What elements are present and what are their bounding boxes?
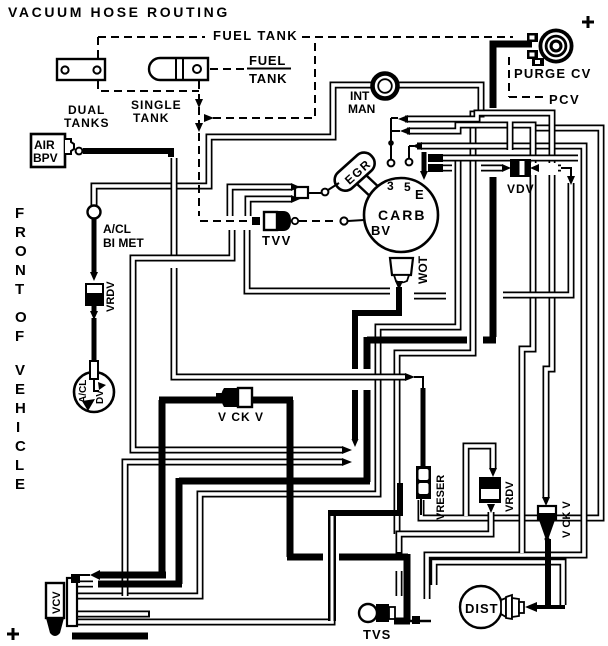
dual tanks sender bbox=[57, 59, 105, 80]
wire carb port3b hose down slot to lower junction bbox=[407, 125, 533, 553]
wire inner bottom-right run to distributor riser bbox=[434, 562, 563, 605]
label A/CL DV rotated bbox=[78, 380, 106, 404]
label FUEL over TANK bbox=[247, 53, 291, 86]
svg-text:E: E bbox=[15, 381, 25, 398]
label DUAL TANKS bbox=[64, 103, 109, 130]
wire purge snake to VCV row2 bbox=[98, 581, 182, 588]
svg-text:H: H bbox=[15, 400, 26, 417]
arrow into distributor fitting bbox=[525, 602, 537, 612]
arrow A/CL into VRDV bbox=[90, 272, 98, 281]
label SINGLE TANK bbox=[131, 98, 182, 125]
wire TVV lower stub 2 to WOT area bbox=[247, 228, 390, 291]
wire VCK U right leg bbox=[287, 400, 294, 557]
wire INT MAN left branch to A/CL bimetal bbox=[94, 85, 372, 206]
wire carb E hose D going right bbox=[440, 155, 578, 162]
svg-text:TVV: TVV bbox=[262, 233, 292, 248]
wire VCV hose row 5 to mid riser bbox=[77, 516, 332, 622]
wire purge valve thick line top bbox=[493, 44, 532, 108]
EGR valve bbox=[331, 148, 379, 194]
WOT valve bbox=[390, 258, 413, 290]
svg-text:T: T bbox=[15, 281, 24, 298]
svg-text:E: E bbox=[415, 187, 424, 202]
svg-text:N: N bbox=[15, 262, 26, 279]
svg-text:DIST: DIST bbox=[465, 601, 499, 616]
wire TVV stub hose to EGR fitting bbox=[230, 187, 291, 218]
wire A/CL bimetal down line bbox=[92, 218, 97, 273]
distributor circle bbox=[460, 586, 524, 628]
purge valve bbox=[527, 29, 574, 67]
svg-text:L: L bbox=[15, 457, 24, 474]
wire VCV row2 hollow corner piece bbox=[77, 581, 93, 588]
wire purge snake left drop bbox=[176, 478, 183, 584]
wire purge snake bottom horizontal bbox=[179, 478, 370, 485]
wire purge snake mid segment bbox=[490, 177, 497, 337]
VRDV valve (left) bbox=[85, 283, 104, 306]
wire VCK U left leg bbox=[159, 400, 166, 572]
wire VRDV2 bottom hose bbox=[399, 512, 491, 554]
wire VDV left hose bbox=[479, 165, 502, 172]
arrow air hose into reservoir riser bbox=[405, 373, 423, 388]
VDV valve bbox=[502, 159, 575, 185]
DASHES bbox=[98, 37, 544, 221]
wire WOT thick line lower bbox=[352, 390, 358, 440]
svg-text:E: E bbox=[15, 476, 25, 493]
single tank sender bbox=[149, 58, 208, 80]
HOSES-HOLLOW bbox=[77, 85, 601, 622]
wire dashed riser to top bbox=[314, 39, 316, 116]
wire down to A/CL DV fitting bbox=[92, 318, 97, 361]
svg-text:PCV: PCV bbox=[549, 92, 580, 107]
svg-text:I: I bbox=[16, 419, 20, 436]
wire vacuum-reservoir to right riser bbox=[421, 128, 601, 518]
VRESER reservoir bbox=[416, 466, 431, 515]
wire purge snake down mid 2 bbox=[364, 390, 371, 482]
wire capped slot above TVS bbox=[396, 569, 403, 596]
wire VDV right hose bbox=[538, 165, 563, 172]
wire VRDV to A/CL DV bbox=[92, 306, 97, 311]
svg-text:A/CL: A/CL bbox=[103, 222, 131, 236]
svg-text:V CK V: V CK V bbox=[561, 501, 573, 538]
arrow hose A left bbox=[398, 115, 408, 123]
wire distributor horizontal line bbox=[536, 605, 565, 609]
arrow dashed down 1 bbox=[195, 99, 203, 108]
INT MAN port circle bbox=[373, 74, 398, 99]
svg-text:VCV: VCV bbox=[51, 591, 63, 614]
svg-text:WOT: WOT bbox=[416, 255, 430, 284]
wire drop to TVS bbox=[404, 554, 411, 621]
arrow dashed branch right bbox=[204, 114, 214, 122]
wire VRDV2 feed inverted U bbox=[466, 446, 493, 516]
label FRONT OF VEHICLE vertical bbox=[15, 205, 27, 493]
plus symbol top right bbox=[582, 16, 594, 28]
wire dashed dual tank drop bbox=[97, 37, 99, 58]
TVV valve bbox=[252, 211, 298, 231]
svg-text:5: 5 bbox=[404, 180, 411, 194]
arrow WOT line end bbox=[352, 439, 359, 447]
wire slot break gap bbox=[527, 163, 558, 175]
arrow hose2 into EGR fitting bbox=[291, 195, 300, 203]
svg-text:3: 3 bbox=[387, 179, 394, 193]
wire stub right of WOT bbox=[414, 293, 446, 300]
wire VRESER thick feed bbox=[421, 388, 426, 468]
wire VCV bottom thick hose bbox=[72, 633, 148, 640]
wire TVS corner bbox=[394, 618, 410, 625]
svg-text:VACUUM HOSE ROUTING: VACUUM HOSE ROUTING bbox=[8, 4, 230, 20]
svg-text:DV: DV bbox=[95, 390, 106, 404]
wire VDV down hose to capped end bbox=[501, 181, 571, 295]
wire lower check valve to distributor line bbox=[545, 539, 551, 605]
arrow hose B left bbox=[400, 127, 410, 135]
svg-text:V: V bbox=[15, 362, 25, 379]
wire carb port5 hose to distributor via right outer run bbox=[417, 146, 584, 599]
wire TVS line right with junction dot bbox=[410, 620, 431, 623]
label AIR BPV bbox=[33, 138, 58, 165]
wire mid riser hollow heavy bbox=[328, 514, 336, 621]
plus symbol bottom left bbox=[7, 628, 19, 640]
svg-text:O: O bbox=[15, 309, 27, 326]
wire second check-valve loop hose bbox=[125, 462, 343, 596]
wire purge snake down mid bbox=[364, 337, 371, 369]
svg-text:INT: INT bbox=[350, 89, 370, 103]
arrow hose1 into EGR fitting bbox=[291, 183, 300, 191]
svg-text:VRESER: VRESER bbox=[435, 475, 447, 520]
arrow check hose right 2 bbox=[342, 458, 352, 466]
arrow dashed down 2 bbox=[195, 123, 203, 132]
svg-text:MAN: MAN bbox=[348, 102, 375, 116]
svg-text:PURGE CV: PURGE CV bbox=[514, 66, 592, 81]
arrow VCV row1 bbox=[90, 570, 100, 580]
A/CL DV fitting bbox=[90, 361, 99, 391]
svg-text:BI MET: BI MET bbox=[103, 236, 144, 250]
wire AIR BPV long hose lower part to reservoir arrow bbox=[174, 268, 405, 377]
A/CL bimetal sensor circle bbox=[88, 206, 101, 219]
wire AIR BPV thick hose bbox=[83, 151, 171, 157]
wire INT MAN right branch down right side to VRDV bottom node bbox=[397, 85, 481, 534]
arrow hose C left bbox=[412, 142, 422, 150]
wire dashed TVV to carb BV bbox=[299, 220, 338, 222]
VCK V valve (bottom right) bbox=[538, 497, 556, 542]
wire VCK U bottom right run bbox=[287, 554, 323, 561]
label INT MAN bbox=[348, 89, 375, 116]
svg-text:TANK: TANK bbox=[133, 111, 169, 125]
wire mid riser top horizontal bbox=[328, 510, 400, 516]
wire WOT thick line bbox=[355, 287, 399, 369]
black cap hose D bbox=[428, 154, 443, 162]
VCV assembly bbox=[46, 574, 80, 636]
wire VCK U top bbox=[159, 397, 293, 404]
arrow carb E port bbox=[420, 171, 428, 180]
wire mid riser up to top bbox=[397, 483, 403, 516]
wire VCV row1 hollow stub bbox=[77, 574, 90, 576]
wire purge snake corner to left bbox=[483, 337, 496, 344]
svg-text:VDV: VDV bbox=[507, 182, 535, 196]
wire dashed PCV box vertical bbox=[508, 57, 510, 97]
svg-text:F: F bbox=[15, 328, 24, 345]
arrow into VRDV2 top bbox=[489, 468, 497, 477]
wire purge snake horizontal after break bbox=[367, 337, 467, 344]
svg-text:R: R bbox=[15, 224, 26, 241]
black cap hose E bbox=[428, 164, 443, 172]
svg-text:TVS: TVS bbox=[363, 627, 391, 642]
wire dashed to TVV bbox=[200, 220, 250, 222]
svg-text:FUEL TANK: FUEL TANK bbox=[213, 28, 298, 43]
AIR BPV box bbox=[31, 134, 82, 167]
svg-text:O: O bbox=[15, 243, 27, 260]
VRDV valve (right) bbox=[479, 477, 501, 513]
svg-text:TANK: TANK bbox=[249, 71, 287, 86]
wire VCK U left leg turn to VCV bbox=[99, 572, 166, 579]
svg-text:C: C bbox=[15, 438, 26, 455]
wire dashed single tank to fuel tank label bbox=[210, 68, 245, 70]
svg-text:V CK V: V CK V bbox=[218, 410, 264, 424]
wire carb E port thick stub bbox=[422, 152, 427, 172]
TVS switch bbox=[359, 604, 395, 622]
svg-text:VRDV: VRDV bbox=[504, 481, 516, 512]
arrow check hose right 1 bbox=[342, 446, 352, 454]
svg-text:CARB: CARB bbox=[378, 207, 426, 223]
wire short capped stub near PCV bbox=[507, 120, 514, 150]
wire VCK U bottom right run 2 bbox=[339, 554, 408, 561]
svg-text:TANKS: TANKS bbox=[64, 116, 109, 130]
arrow VRDV down bbox=[90, 311, 98, 320]
wire AIR BPV hose upper vertical bbox=[171, 156, 178, 258]
svg-text:FUEL: FUEL bbox=[249, 53, 286, 68]
THICK bbox=[72, 44, 565, 636]
EGR left fitting bbox=[295, 183, 339, 198]
carb port 5 bbox=[406, 146, 414, 165]
svg-text:AIR: AIR bbox=[34, 138, 55, 152]
svg-text:BV: BV bbox=[371, 223, 391, 238]
wire dashed fuel tank top right bbox=[302, 36, 513, 38]
wire dashed fuel tank top left bbox=[98, 36, 205, 38]
svg-text:VRDV: VRDV bbox=[105, 281, 117, 312]
svg-text:BPV: BPV bbox=[33, 151, 58, 165]
wire hose E to VDV bbox=[440, 165, 452, 172]
wire snake from carb-area down through mid verticals to VCV bbox=[77, 160, 458, 596]
wire dashed dual tank below bbox=[98, 81, 199, 91]
wire dashed PCV box horizontal bbox=[509, 96, 544, 98]
svg-text:SINGLE: SINGLE bbox=[131, 98, 182, 112]
wire TVV lower stub to check-valve loop bbox=[133, 228, 343, 450]
wire VCV hose row 4 bbox=[77, 611, 150, 618]
VCK V valve (mid) bbox=[216, 388, 252, 407]
wire dashed single tank vertical bbox=[198, 81, 200, 216]
svg-text:A/CL: A/CL bbox=[78, 380, 89, 403]
carburetor circle bbox=[340, 178, 438, 252]
A/CL DV circle bbox=[74, 372, 114, 412]
svg-text:F: F bbox=[15, 205, 24, 222]
wire dashed branch right bbox=[213, 117, 313, 119]
svg-text:DUAL: DUAL bbox=[68, 103, 105, 117]
wire TVV stub hose 2 to EGR fitting bbox=[248, 199, 291, 218]
label A/CL BI MET bbox=[103, 222, 144, 250]
wire carb port3 hose to lower check valve via right slots bbox=[405, 113, 552, 498]
carb port 3 bbox=[388, 118, 400, 166]
